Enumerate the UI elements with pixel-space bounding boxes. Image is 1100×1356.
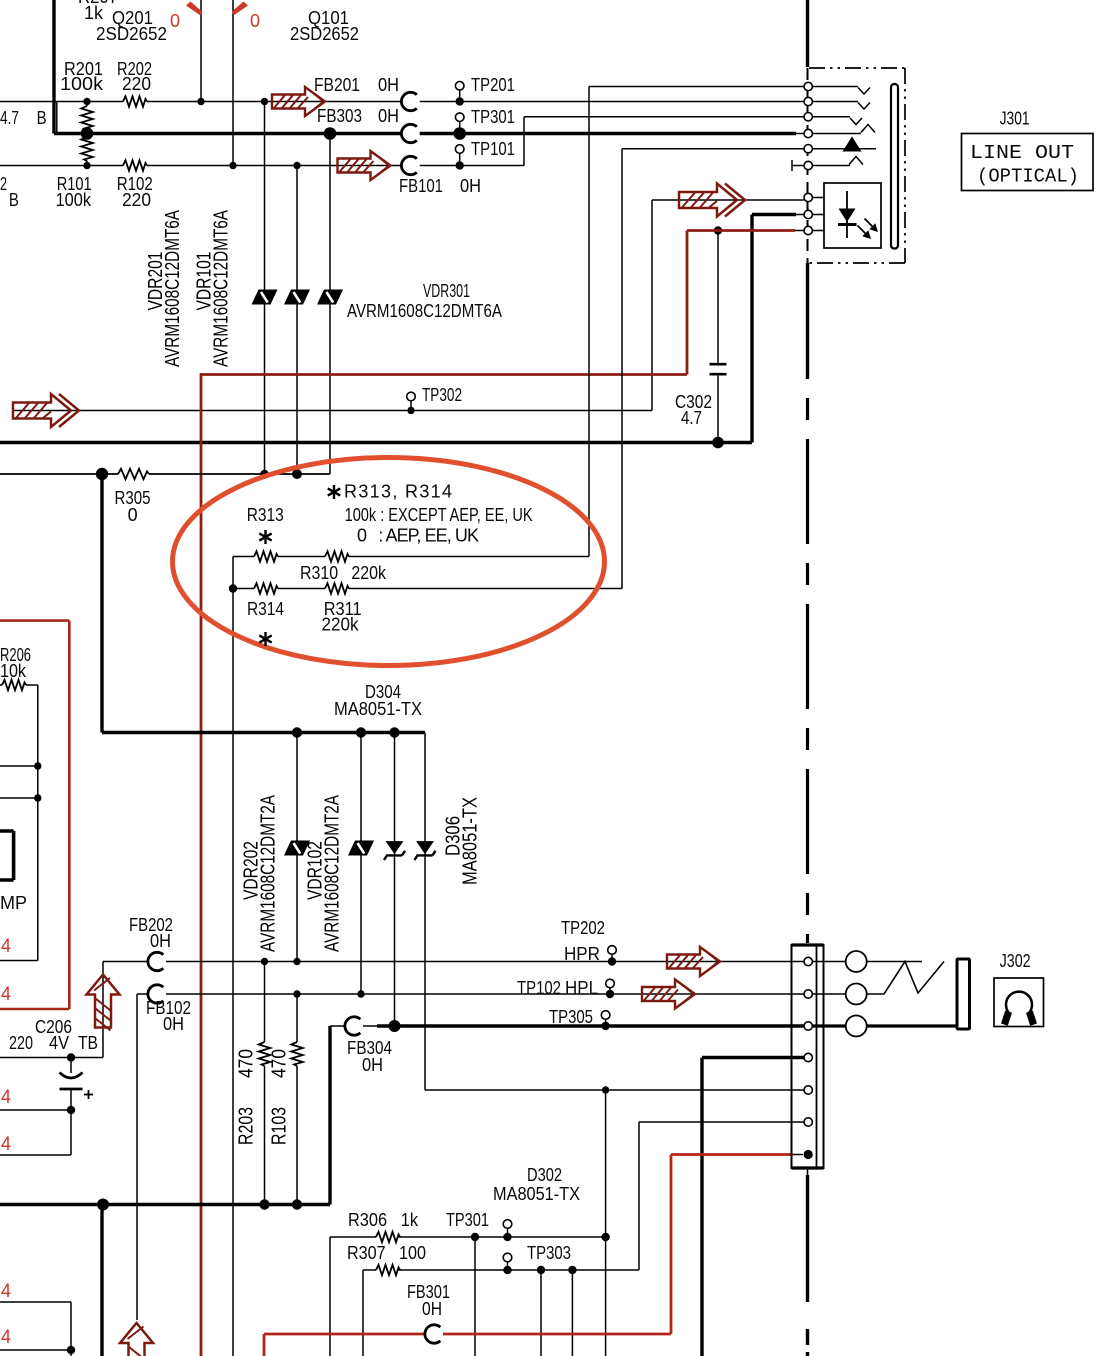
svg-text:R313, R314: R313, R314 [344,482,452,502]
off-sheet arrow W1 [272,87,325,116]
J302 pins [804,957,812,965]
svg-text:TP303: TP303 [527,1243,571,1263]
wire net W3 row (to TP101 / J301 pin3) [0,117,804,166]
wire net R305 row [0,473,118,475]
wire net R306/TP301 row [330,1237,606,1356]
shield solid segment below J301 [806,263,809,379]
wire Q101 base 0-ohm drop [232,0,234,166]
photodiode box [824,183,881,248]
svg-text:220k: 220k [322,615,360,635]
varistor VDR201 symbol [252,290,278,305]
wire rows C206 left [0,1109,71,1111]
svg-text:FB101: FB101 [399,176,443,196]
ferrite bead FB304 [345,1017,360,1035]
svg-text:4: 4 [1,1087,11,1108]
svg-text:2SD2652: 2SD2652 [96,24,167,44]
svg-text:R307 100: R307 100 [347,1243,426,1263]
LED emission arrows [858,226,866,234]
svg-text:0: 0 [128,505,138,525]
wire net red FB301 row [264,1333,425,1336]
svg-text:2: 2 [0,174,7,194]
svg-text:470: 470 [269,1049,291,1078]
resistor R206 [2,680,26,690]
ferrite bead FB101 [401,156,416,174]
junction dot FB304 [389,1020,401,1032]
svg-text:B: B [9,190,19,210]
varistor VDR201 column wire [264,102,266,475]
off-sheet arrow TP302 row [13,394,79,427]
resistor R202 [123,96,147,106]
wire Q201 base 0-ohm drop [200,0,202,102]
jack sleeve bar [957,959,970,1029]
testpoint TP302 [410,401,412,411]
junction dot C206 top [67,1053,75,1061]
svg-text:TP305: TP305 [549,1007,593,1027]
J301 pins [804,82,812,90]
svg-text:MA8051-TX: MA8051-TX [493,1184,580,1204]
svg-text:AVRM1608C12DMT2A: AVRM1608C12DMT2A [258,794,280,952]
LED symbol [846,191,848,238]
capacitor C302 column wire [717,231,719,443]
off-sheet arrow HPR [667,947,720,976]
varistor VDR301 column wire [329,134,331,475]
svg-text:TP301: TP301 [446,1210,489,1230]
wire stub Q201 emitter [56,102,58,134]
shield line top stub [806,0,809,67]
resistor R307 [376,1265,400,1275]
svg-text:TP202: TP202 [561,918,605,938]
junction dots R307 row [503,1266,511,1274]
svg-text:MA8051-TX: MA8051-TX [460,797,482,885]
resistor R306 [376,1232,400,1242]
junction dots HPR row [261,958,268,965]
wire net FB304/TP305 thick row [328,1026,331,1205]
resistor R102 [123,160,147,170]
junction dot x605/1090 [602,1086,609,1093]
varistor VDR102 column wire [360,733,362,995]
wire net thick bus2 [0,1203,330,1206]
jack tip contact [867,961,922,963]
zener diode D306a symbol [384,841,405,860]
varistor VDR202 column wire [296,733,298,962]
wire rows bottom-left connector stubs [0,1302,71,1356]
junction dots R306 row [471,1233,479,1241]
junction dot bus-drop/R305 [96,468,108,480]
J302 icon box [994,978,1044,1027]
svg-text:10k: 10k [0,661,27,681]
testpoint TP201 [459,90,461,102]
off-sheet arrow W3 [338,151,391,180]
junction dot R314 row [229,584,237,592]
wire x541 column down [540,1270,542,1356]
svg-text:0H: 0H [150,931,171,951]
svg-text:AVRM1608C12DMT6A: AVRM1608C12DMT6A [211,209,233,367]
wire red vertical long [200,373,203,1356]
svg-text:AVRM1608C12DMT6A: AVRM1608C12DMT6A [347,301,502,321]
svg-text:D302: D302 [527,1165,562,1185]
svg-text:MP: MP [0,893,27,913]
svg-text:LINE OUT: LINE OUT [970,142,1074,164]
junction dots HPL row [293,990,300,997]
jack ring contact zigzag [867,962,944,995]
resistor R101 vertical [86,134,88,138]
svg-text:220: 220 [9,1033,33,1053]
svg-text:100k: 100k [56,190,92,210]
connector J302 box [792,945,824,1168]
svg-text:470: 470 [236,1049,258,1078]
resistor R201 vertical [86,102,88,107]
svg-text:0H: 0H [362,1055,383,1075]
red block boundary [0,621,69,1009]
capacitor C302 [710,363,727,366]
wire thick vertical x102 upper [100,474,103,733]
testpoint TP303 [507,1262,509,1270]
svg-text:TP302: TP302 [422,385,462,405]
J301 LED box stubs [812,198,824,231]
shield dash-dot vertical [806,379,809,943]
junction dot bus1/C302 [712,437,724,449]
svg-text:4: 4 [1,1327,11,1348]
svg-text:R306 1k: R306 1k [348,1210,419,1230]
varistor VDR101 column wire [296,166,298,475]
svg-text:4: 4 [1,1281,11,1302]
svg-text:0H: 0H [378,75,399,95]
zener diode D306a column wire [394,733,396,1027]
ferrite bead FB202 [148,952,163,970]
svg-text:4: 4 [1,984,11,1005]
wire net D304 thick row [102,731,425,734]
varistor VDR301 symbol [317,290,343,305]
testpoint TP102 [609,988,611,994]
svg-text:4.7: 4.7 [0,108,19,128]
ferrite bead FB201 [401,92,416,110]
ferrite bead FB102 [148,985,163,1003]
wire net R307/TP303 row [363,1270,639,1356]
wire net W1 top row (to TP201 / J301 pin2) [0,101,804,103]
svg-text:4V: 4V [49,1033,69,1053]
svg-text:100k: 100k [60,74,104,94]
resistor R310 [325,551,349,561]
wire net red to J301 pin9 [201,231,795,375]
jack sleeve wire thick [867,1024,957,1027]
varistor VDR202 symbol [284,841,310,856]
svg-text:TP101: TP101 [471,139,515,159]
wire net x605 column [605,1090,607,1356]
wire net TP302 row to J301 pin7 [12,200,804,411]
connector J301 dash-dot outline [809,67,905,69]
red wedge right [232,2,248,16]
ferrite bead FB303 [401,124,416,142]
wire rows amp outputs [0,765,38,767]
svg-text:0H: 0H [163,1014,184,1034]
svg-text:TP201: TP201 [471,75,515,95]
IC box HPAMP edge [0,831,14,880]
svg-text:TP301: TP301 [471,107,515,127]
J301 pin6 stub [792,165,804,167]
junction dot red/C302 [714,226,722,234]
junction dots R201/R101 [83,98,90,105]
resistor R313 [254,551,278,561]
wire net R313/R310 row to J301 pin1 [233,87,804,557]
off-sheet arrow J301 pin7 row [679,184,745,217]
resistor R103 column [296,994,298,1042]
svg-text:220: 220 [122,190,151,210]
shield stub below J302 [807,1168,809,1175]
svg-text:0: 0 [170,11,180,31]
svg-text:FB303: FB303 [317,106,362,126]
svg-text:TB: TB [78,1033,98,1053]
capacitor C206 [70,1058,72,1074]
wire x477 column down [474,1237,476,1356]
svg-text:TP102: TP102 [517,978,561,998]
wire net thick bus1 to J301 pin8 [0,215,796,443]
svg-text:100k : EXCEPT AEP, EE, UK: 100k : EXCEPT AEP, EE, UK [345,505,533,525]
testpoint TP101 [459,153,461,165]
varistor VDR102 symbol [348,841,374,856]
svg-text:R313: R313 [247,505,284,525]
wire net W2 thick row (FB303 to J301 pin4) [54,0,796,134]
svg-text:AVRM1608C12DMT2A: AVRM1608C12DMT2A [322,794,344,952]
off-sheet arrow HPL [642,980,695,1009]
note R313/R314 [328,485,340,499]
off-sheet arrow up FB102 bottom [120,1323,153,1356]
junction dots R305 row [260,470,268,478]
svg-text:2SD2652: 2SD2652 [290,24,359,44]
wire net J302 pin 1122 [639,1122,804,1270]
resistor R203 column [264,962,266,1043]
testpoint TP202 [611,954,613,961]
testpoint TP305 [605,1019,607,1026]
svg-text:HPR: HPR [564,944,600,964]
wire net red FB301 riser [671,1155,793,1335]
resistor R311 [325,583,349,593]
svg-text:FB201: FB201 [314,75,360,95]
svg-text:J302: J302 [1000,951,1031,971]
svg-text:MA8051-TX: MA8051-TX [334,699,422,719]
svg-text:AVRM1608C12DMT6A: AVRM1608C12DMT6A [162,209,184,367]
wire x572 column down [571,1270,573,1356]
svg-text:0H: 0H [460,176,481,196]
svg-text:R203: R203 [236,1107,258,1145]
svg-text:4: 4 [1,1134,11,1155]
J301 contact lines [812,86,858,88]
svg-text:0H: 0H [378,106,399,126]
wire thick vertical x102 lower [100,1205,103,1356]
svg-text:R103: R103 [269,1107,291,1145]
testpoint TP301 bottom [507,1228,509,1237]
svg-text:1k: 1k [84,3,104,23]
svg-text:R314: R314 [247,599,284,619]
zener diode D306b column wire [425,733,804,1091]
svg-text:R310 220k: R310 220k [300,563,387,583]
svg-text:J301: J301 [1000,109,1030,129]
J302 pin shield filled [804,1150,813,1159]
wire x233 column down [232,557,234,1356]
headphone icon [1006,992,1032,1015]
off-sheet arrow up FB202 [87,975,120,1031]
J301 slot bar [891,84,898,249]
resistor R314 [254,583,278,593]
connector J301 name box [962,134,1094,191]
svg-text:220: 220 [122,74,151,94]
annotation ellipse [173,458,605,666]
svg-text:4: 4 [1,936,11,957]
svg-text:HPL: HPL [565,978,598,998]
red wedge left [186,2,202,16]
varistor VDR101 symbol [284,290,310,305]
wire net J302 pin 1057 thick [702,1058,804,1356]
zener diode D306b symbol [415,841,436,860]
svg-text:4.7: 4.7 [681,408,702,428]
svg-text:VDR301: VDR301 [423,281,470,301]
svg-text:(OPTICAL): (OPTICAL) [977,165,1079,187]
svg-text:0H: 0H [422,1299,442,1319]
J301 record tab triangle [843,137,862,152]
wire net R206 column [0,685,38,961]
wire net HPR (FB202 row) [0,962,103,1058]
J302 contact circles [812,961,845,963]
testpoint TP301 [459,122,461,134]
junction dots D304 row [292,727,302,737]
ferrite bead FB301 [425,1325,440,1343]
wire net R314/R311 row to J301 pin5 [233,149,804,589]
svg-text:B: B [37,108,47,128]
svg-text:0 : AEP, EE, UK: 0 : AEP, EE, UK [357,526,479,546]
wire net HPL (FB102 row) [137,994,804,1320]
junction dots bus2 [97,1199,109,1211]
svg-text:0: 0 [250,11,260,31]
junction dots R206 column [34,762,41,769]
